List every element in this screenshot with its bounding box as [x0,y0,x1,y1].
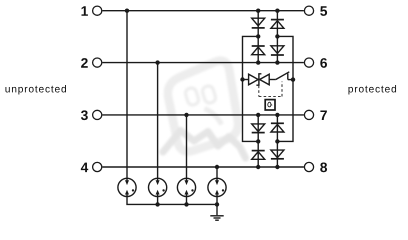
right diode chain vertical (bottom half) [276,115,278,167]
TVS suppressor U1 [249,74,270,85]
thermal trip element [265,100,275,110]
junction node row1/left chain [256,9,260,13]
vertical wire from node on row2 to arrester F2 [157,63,159,178]
thermal disconnect switch [276,72,293,80]
terminal 3 [93,110,102,119]
terminal 4 [93,162,102,171]
junction node row4/F4 [215,165,219,169]
junction node rail left/TVS [240,77,244,81]
label terminal 4 [81,163,88,172]
wire row 2 (terminal 2 to 6) [102,62,304,64]
terminal 6 [304,58,313,67]
spark gap arrester F1 [118,178,136,197]
wire row 4 (terminal 4 to 8) [102,166,304,168]
spark gap arrester F4 [208,178,226,197]
diode D7 (row4 left, cathode up) [252,151,265,160]
stem arrester F2 to bus [157,197,159,205]
label terminal 6 [320,58,327,68]
label unprotected side [5,85,66,95]
wire row 3 (terminal 3 to 7) [102,114,304,116]
junction node row3/right chain [275,113,279,117]
stem arrester F3 to bus [186,197,188,205]
terminal 2 [93,58,102,67]
junction node row4/right chain [275,165,279,169]
terminal 1 [93,6,102,15]
junction node top link/left chain [256,34,260,38]
label terminal 3 [81,110,88,120]
left diode chain vertical (bottom half) [257,115,259,167]
diode D8 (row4 right, cathode down) [271,150,284,159]
junction node bottom link/left chain [256,139,260,143]
module rail left with links [243,36,259,141]
junction node row1/right chain [275,9,279,13]
label terminal 5 [320,6,327,16]
spark gap arrester F3 [177,178,195,197]
diode D6 (row3 right, cathode up) [271,123,284,132]
diode D5 (row3 left, cathode down) [252,124,265,133]
junction node rail right/switch [291,77,295,81]
junction node bus/F3 [184,202,188,206]
watermark logo [163,61,246,158]
junction node top link/right chain [275,34,279,38]
label terminal 7 [320,111,326,120]
ground [210,216,223,220]
ground bus wire [127,197,217,205]
label terminal 2 [81,58,88,68]
vertical wire from node on row4 to arrester F4 [216,167,218,178]
module rail right with links [277,36,293,141]
junction node row4/left chain [256,165,260,169]
junction node row1/F1 [125,9,129,13]
right diode chain vertical (top half) [276,11,278,63]
label terminal 1 [81,6,87,15]
stem bus to ground [216,197,218,215]
vertical wire from node on row1 to arrester F1 [126,11,128,178]
vertical wire from node on row3 to arrester F3 [186,115,188,178]
junction node row3/F3 [184,113,188,117]
junction node bottom link/right chain [275,139,279,143]
left diode chain vertical (top half) [257,11,259,63]
junction node bus/ground [215,202,219,206]
terminal 5 [304,6,313,15]
TVS suppressor branch wire left [243,79,249,81]
label protected side [348,85,396,95]
junction node bus/F2 [155,202,159,206]
terminal 7 [304,110,313,119]
mechanical link (dashed) [259,82,282,97]
junction node row2/left chain [256,60,260,64]
TVS suppressor branch wire right [269,79,276,81]
junction node row2/right chain [275,60,279,64]
terminal 8 [304,162,313,171]
wire row 1 (terminal 1 to 5) [102,10,304,12]
junction node row2/F2 [155,60,159,64]
spark gap arrester F2 [149,178,167,197]
junction node row3/left chain [256,113,260,117]
diode D4 (row2 right, cathode down) [271,46,284,55]
diode D2 (row1 right, cathode up) [271,20,284,29]
diode D3 (row2 left, cathode up) [252,46,265,55]
label terminal 8 [320,162,327,172]
diode D1 (row1 left, cathode down) [252,18,265,28]
